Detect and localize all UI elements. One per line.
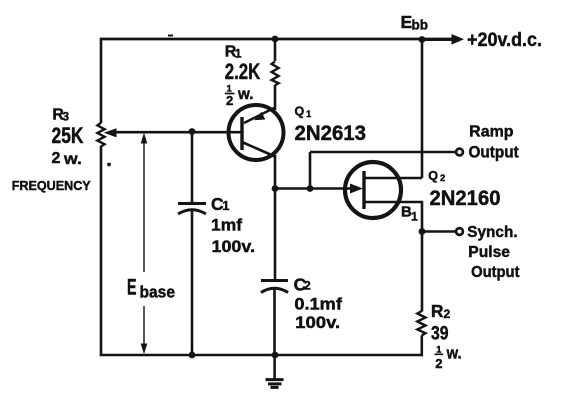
label R2 half w bbox=[435, 345, 462, 372]
arrowhead E_base down bbox=[141, 344, 148, 355]
svg-text:1: 1 bbox=[306, 109, 312, 120]
capacitor C1 plates bbox=[178, 202, 206, 205]
label Q1 bbox=[295, 104, 313, 120]
svg-text:2: 2 bbox=[304, 279, 311, 293]
svg-text:Pulse: Pulse bbox=[468, 244, 510, 261]
transistor Q1 circle bbox=[229, 105, 284, 160]
node B1 / synch bbox=[419, 228, 426, 235]
wire Q2 B1 lead bbox=[364, 201, 422, 204]
wire B1 down to node bbox=[421, 201, 424, 232]
wire top rail bbox=[101, 38, 452, 41]
svg-text:E: E bbox=[401, 12, 413, 32]
svg-text:w.: w. bbox=[63, 151, 82, 168]
transistor Q1 base bar bbox=[240, 117, 243, 150]
svg-text:25K: 25K bbox=[52, 123, 84, 148]
svg-text:1mf: 1mf bbox=[211, 216, 242, 235]
node Ebb bbox=[419, 36, 426, 43]
node R1 top bbox=[272, 36, 279, 43]
terminal synch output bbox=[456, 228, 463, 235]
svg-text:Q: Q bbox=[295, 104, 305, 118]
capacitor C1 bottom lead bbox=[191, 211, 194, 356]
svg-text:2N2160: 2N2160 bbox=[430, 186, 501, 210]
capacitor C2 bottom lead bbox=[273, 290, 276, 357]
svg-text:100v.: 100v. bbox=[295, 313, 340, 332]
terminal ramp output bbox=[456, 149, 463, 156]
resistor R1 zigzag bbox=[272, 62, 279, 86]
label R1 half w bbox=[225, 84, 254, 108]
svg-text:39: 39 bbox=[431, 323, 449, 345]
wire left rail upper bbox=[100, 38, 103, 123]
svg-text:Synch.: Synch. bbox=[467, 224, 517, 241]
svg-text:2N2613: 2N2613 bbox=[295, 122, 367, 145]
wire left rail lower bbox=[100, 146, 103, 356]
node C1 / wiper bbox=[189, 128, 196, 135]
svg-text:2: 2 bbox=[52, 150, 61, 167]
svg-text:2: 2 bbox=[444, 307, 451, 321]
ground bbox=[273, 355, 276, 379]
transistor Q1 collector bbox=[242, 142, 276, 157]
wire Q1 collector down to node bbox=[274, 155, 277, 281]
arrowhead Q2 UJT emitter bbox=[350, 184, 363, 194]
label R3 bbox=[52, 107, 69, 124]
svg-text:1: 1 bbox=[411, 212, 418, 224]
svg-text:bb: bb bbox=[412, 18, 429, 33]
capacitor C1 top lead bbox=[191, 132, 194, 203]
label Ebase bbox=[127, 275, 175, 302]
label Q2 bbox=[428, 169, 445, 184]
label R1 bbox=[225, 43, 242, 60]
label Ebb bbox=[401, 12, 429, 33]
svg-text:Ramp: Ramp bbox=[469, 123, 513, 140]
capacitor C2 plates bbox=[261, 279, 288, 282]
arrowhead Q1 emitter (PNP) bbox=[254, 112, 265, 120]
label C1 bbox=[211, 194, 229, 214]
transistor Q2 base bar bbox=[362, 171, 365, 209]
arrowhead R3 wiper bbox=[104, 128, 117, 137]
svg-text:w.: w. bbox=[237, 86, 253, 103]
arrowhead E_base up bbox=[141, 133, 148, 144]
transistor Q1 emitter with arrow bbox=[244, 108, 275, 124]
svg-text:E: E bbox=[127, 275, 137, 300]
label R2 bbox=[431, 301, 451, 321]
wire bottom rail bbox=[100, 354, 423, 357]
svg-text:Output: Output bbox=[469, 144, 520, 162]
svg-text:0.1mf: 0.1mf bbox=[294, 296, 342, 314]
wire synch output bbox=[422, 230, 455, 233]
svg-text:2: 2 bbox=[435, 356, 442, 371]
node ramp stub bbox=[307, 185, 314, 192]
wire R2 top lead bbox=[421, 232, 424, 312]
svg-text:3: 3 bbox=[62, 110, 69, 124]
wire Q1 collector node to UJT emitter bbox=[275, 187, 352, 190]
svg-text:1: 1 bbox=[222, 198, 229, 213]
wire ramp stub bbox=[309, 152, 312, 189]
wire R1 top lead bbox=[274, 39, 277, 61]
svg-text:FREQUENCY: FREQUENCY bbox=[12, 178, 91, 193]
wire Q2 B2 lead bbox=[364, 177, 422, 180]
transistor Q2 UJT circle bbox=[345, 162, 401, 218]
scan tick artifact bbox=[168, 35, 173, 37]
wire ramp output bbox=[310, 151, 455, 154]
svg-text:Output: Output bbox=[471, 264, 520, 281]
svg-text:R: R bbox=[431, 301, 444, 321]
arrowhead +20v.d.c. bbox=[452, 34, 465, 45]
label 2w bbox=[52, 150, 82, 168]
svg-text:w.: w. bbox=[446, 345, 462, 363]
svg-text:+20v.d.c.: +20v.d.c. bbox=[467, 29, 542, 51]
resistor R2 zigzag bbox=[417, 311, 425, 336]
resistor R3 zigzag bbox=[97, 123, 104, 147]
svg-text:2.2K: 2.2K bbox=[225, 59, 261, 84]
svg-text:100v.: 100v. bbox=[212, 237, 256, 256]
stray dot bbox=[107, 163, 111, 167]
wire R2 bottom lead bbox=[420, 336, 423, 357]
svg-text:base: base bbox=[140, 284, 176, 302]
label C2 bbox=[294, 274, 311, 294]
wire B2 riser to Ebb bbox=[421, 38, 424, 178]
wire +20v arrow shaft bbox=[422, 38, 452, 41]
node C2 bottom bbox=[272, 352, 279, 359]
node Q1 collector / C2 bbox=[272, 185, 279, 192]
wire R3 wiper to Q1 base bbox=[110, 131, 242, 134]
svg-text:2: 2 bbox=[440, 173, 445, 184]
label B1 bbox=[401, 204, 418, 224]
svg-text:Q: Q bbox=[428, 169, 438, 183]
svg-text:2: 2 bbox=[226, 93, 233, 108]
wire R1 to Q1 emitter bbox=[274, 85, 277, 110]
node C1 bottom bbox=[189, 352, 196, 359]
E_base dimension line bbox=[143, 136, 145, 272]
